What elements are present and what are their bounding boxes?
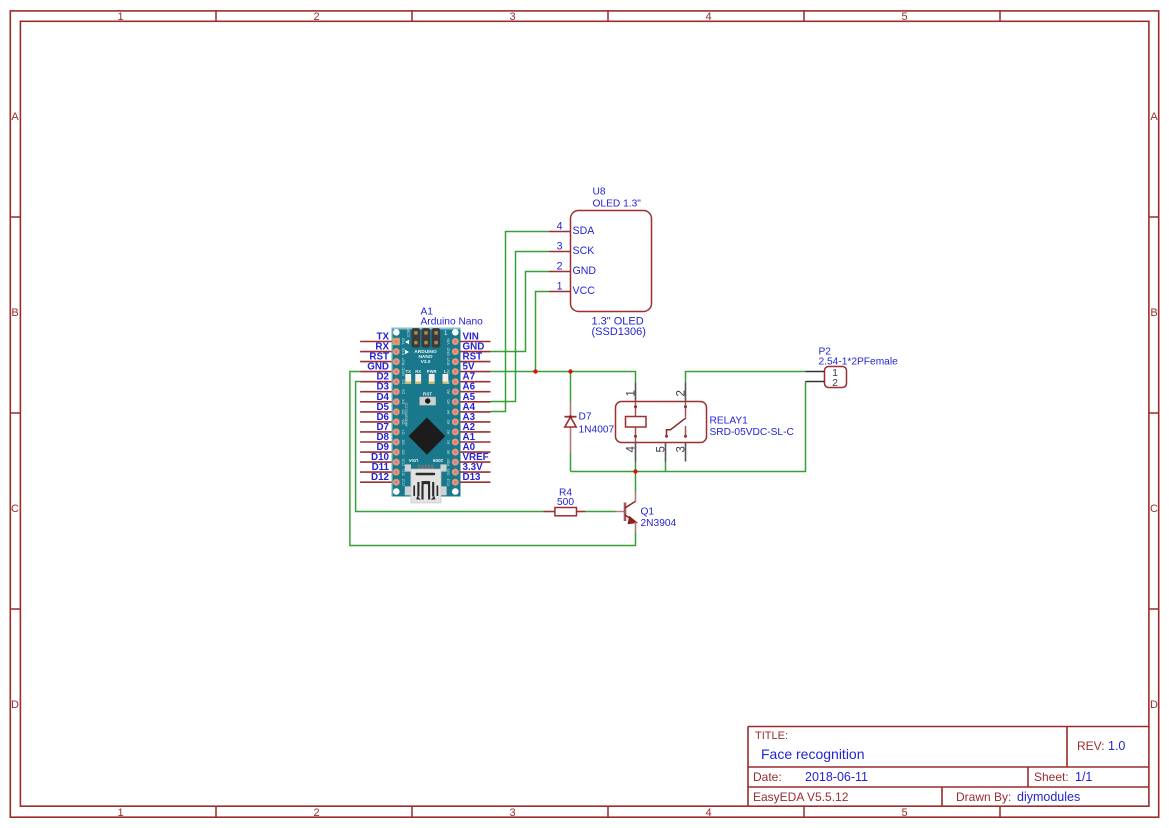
svg-text:SRD-05VDC-SL-C: SRD-05VDC-SL-C — [710, 427, 794, 438]
svg-text:C: C — [11, 503, 19, 515]
svg-text:Sheet:: Sheet: — [1034, 770, 1069, 784]
svg-text:D8: D8 — [402, 440, 406, 445]
CONNECTOR P2 — [806, 347, 899, 390]
svg-text:SCK: SCK — [573, 245, 595, 257]
RELAY1 switch terminal dots — [684, 405, 687, 408]
A1 LEDs — [405, 374, 411, 384]
ARDUINO NANO A1 — [360, 307, 490, 484]
svg-text:(SSD1306): (SSD1306) — [592, 326, 646, 338]
svg-text:RX0: RX0 — [402, 348, 406, 355]
svg-text:D: D — [11, 699, 19, 711]
svg-text:1: 1 — [444, 330, 448, 337]
svg-text:1: 1 — [557, 281, 563, 293]
RELAY1 coil box — [626, 417, 647, 428]
svg-text:Arduino Nano: Arduino Nano — [421, 317, 484, 328]
svg-text:5: 5 — [901, 11, 907, 23]
svg-text:4: 4 — [557, 221, 563, 233]
svg-text:EasyEDA V5.5.12: EasyEDA V5.5.12 — [753, 790, 849, 804]
svg-text:4: 4 — [625, 446, 637, 453]
RELAY1 pin 5 stub — [665, 443, 667, 462]
svg-text:1N4007: 1N4007 — [579, 425, 615, 436]
A1 USB connector — [418, 465, 420, 470]
D7 cathode bar — [565, 416, 577, 418]
P2 pin 1 stub — [806, 371, 825, 373]
U8 pin numbers — [557, 221, 563, 293]
wire: relay pin5 to bottom net — [665, 462, 667, 472]
Q1 emitter arrow — [628, 516, 639, 525]
RELAY1 switch blade — [667, 418, 687, 437]
junction dot at 5V/VCC — [533, 369, 537, 373]
svg-text:1: 1 — [625, 390, 637, 396]
svg-text:3: 3 — [509, 11, 515, 23]
P2 body — [825, 367, 847, 388]
svg-text:diymodules: diymodules — [1017, 790, 1080, 804]
svg-text:GND: GND — [447, 347, 451, 356]
TRANSISTOR Q1 — [616, 492, 677, 532]
op-amp U8 body — [571, 211, 652, 312]
svg-text:500: 500 — [557, 497, 574, 508]
A1 corner holes — [393, 329, 400, 336]
A1 right pads — [452, 338, 458, 344]
wire: relay pin4 to bottom net — [635, 462, 637, 472]
svg-text:5: 5 — [901, 807, 907, 819]
svg-text:2.54-1*2PFemale: 2.54-1*2PFemale — [819, 357, 899, 368]
svg-text:RX: RX — [415, 369, 421, 374]
svg-text:2009: 2009 — [432, 458, 443, 463]
frame column labels bottom — [117, 807, 907, 819]
svg-text:D7: D7 — [579, 412, 592, 423]
Q1 emitter stub — [635, 522, 637, 532]
A1 right pin name labels — [463, 332, 489, 484]
svg-text:ARDUINO.CC: ARDUINO.CC — [405, 402, 409, 426]
RELAY1 switch contact lead — [685, 426, 687, 436]
svg-text:Q1: Q1 — [641, 507, 655, 518]
junction dot at 5V/D7 — [568, 369, 572, 373]
Q1 base bar — [624, 503, 627, 522]
svg-text:SDA: SDA — [573, 225, 596, 237]
svg-text:D10: D10 — [402, 459, 406, 466]
wire: D7 cathode down to bottom net — [570, 454, 572, 472]
svg-text:C: C — [1150, 503, 1158, 515]
row tick marks left — [10, 217, 20, 609]
frame row labels right — [1150, 111, 1158, 711]
svg-text:1/1: 1/1 — [1075, 770, 1092, 784]
svg-text:A: A — [11, 111, 19, 123]
RELAY1 — [616, 383, 794, 462]
RESISTOR R4 — [544, 488, 586, 516]
svg-text:2: 2 — [313, 807, 319, 819]
svg-text:TX: TX — [406, 369, 412, 374]
svg-text:4: 4 — [705, 11, 711, 23]
wire: 5V net from Arduino 5V pin to relay pin1 — [491, 372, 636, 383]
wire: Arduino GND left down and to Q1 emitter — [350, 372, 636, 546]
A1 inner vertical pin names — [402, 328, 451, 486]
U8 pin 3 stub — [549, 251, 571, 253]
svg-text:TX3: TX3 — [402, 338, 406, 345]
row tick marks right — [1149, 217, 1159, 609]
svg-text:3V3: 3V3 — [447, 469, 451, 476]
svg-text:Drawn By:: Drawn By: — [956, 790, 1011, 804]
svg-text:2N3904: 2N3904 — [641, 518, 677, 529]
svg-text:REV:: REV: — [1077, 739, 1105, 753]
svg-text:4: 4 — [705, 807, 711, 819]
svg-text:5: 5 — [655, 446, 667, 452]
svg-text:Date:: Date: — [753, 770, 782, 784]
svg-text:2: 2 — [313, 11, 319, 23]
Q1 collector diagonal — [625, 501, 636, 508]
svg-text:D13: D13 — [447, 479, 451, 486]
RELAY1 pin 1 stub — [635, 383, 637, 402]
RELAY1 pin 2 stub — [685, 383, 687, 402]
svg-text:PWR: PWR — [427, 369, 437, 374]
U8 pin 4 stub — [549, 231, 571, 233]
svg-text:A0: A0 — [447, 450, 451, 455]
svg-text:U8: U8 — [593, 187, 606, 198]
P2 pin 2 stub — [806, 381, 825, 383]
Q1 emitter diagonal — [625, 515, 637, 523]
svg-text:2: 2 — [557, 261, 563, 273]
OLED MODULE U8 — [549, 187, 652, 339]
svg-text:REF: REF — [447, 458, 451, 466]
wire: R4 right to Q1 base — [585, 511, 615, 513]
svg-text:NANO: NANO — [418, 354, 432, 360]
A1 left pin name labels — [367, 332, 389, 484]
A1 right pin stubs — [461, 342, 491, 483]
svg-text:GND: GND — [402, 367, 406, 376]
svg-text:A1: A1 — [447, 440, 451, 445]
wire: OLED SDA to A4 — [491, 232, 550, 412]
A1 USB shield tabs — [405, 464, 411, 471]
svg-text:A6: A6 — [447, 389, 451, 394]
A1 silk text — [414, 349, 437, 365]
svg-text:A7: A7 — [447, 379, 451, 384]
Q1 base stub — [616, 511, 626, 513]
junction dot bottom net at relay pin4 — [633, 469, 637, 473]
column tick marks bottom — [216, 806, 1000, 817]
frame column labels top — [117, 11, 907, 23]
svg-text:ICSP: ICSP — [407, 328, 411, 337]
A1 MCU chip — [409, 418, 446, 455]
svg-text:RST: RST — [423, 392, 432, 397]
A1 left pads — [393, 338, 399, 344]
RELAY1 switch common lead — [685, 402, 687, 418]
frame row labels left — [11, 111, 19, 711]
svg-text:5V: 5V — [447, 369, 451, 374]
svg-text:OLED 1.3": OLED 1.3" — [593, 199, 642, 210]
RELAY1 body — [616, 402, 707, 443]
wire: bottom net down to Q1 collector — [635, 472, 637, 493]
wire: OLED SCK to A5 — [491, 252, 550, 402]
svg-text:VIN: VIN — [447, 338, 451, 345]
A1 left pin stubs — [360, 342, 391, 483]
R4 body — [555, 508, 577, 516]
wire: bottom net D7 to relay pin4/pin5 to P2 pin2 — [571, 382, 806, 472]
svg-text:USA: USA — [408, 458, 418, 463]
svg-text:D13: D13 — [463, 472, 482, 483]
wire: Arduino D2 to R4 left — [356, 382, 544, 512]
U8 pin 2 stub — [549, 271, 571, 273]
svg-text:A4: A4 — [447, 410, 451, 415]
RELAY1 coil leads — [635, 402, 637, 443]
svg-text:RST: RST — [447, 357, 451, 365]
svg-text:D7: D7 — [402, 429, 406, 434]
WIRES — [350, 232, 806, 546]
wire: OLED VCC down to 5V net — [536, 292, 550, 372]
column tick marks top — [216, 10, 1000, 21]
DIODE D7 — [565, 402, 615, 454]
svg-text:VCC: VCC — [573, 285, 596, 297]
svg-text:B: B — [11, 307, 18, 319]
svg-text:3: 3 — [676, 446, 688, 452]
svg-text:3: 3 — [557, 241, 563, 253]
D7 junction blob — [569, 415, 572, 418]
svg-text:1: 1 — [117, 807, 123, 819]
svg-text:D9: D9 — [402, 450, 406, 455]
A1 ICSP header — [412, 328, 421, 348]
svg-text:RST: RST — [402, 357, 406, 365]
svg-text:D12: D12 — [371, 472, 390, 483]
RELAY1 coil terminal dots — [634, 405, 637, 408]
Q1 collector stub — [635, 492, 637, 501]
RELAY1 pin 3 stub — [685, 443, 687, 462]
svg-text:1.0: 1.0 — [1108, 739, 1125, 753]
D7 anode stub — [570, 402, 572, 417]
R4 right stub — [577, 511, 586, 513]
svg-text:GND: GND — [573, 265, 597, 277]
svg-text:2018-06-11: 2018-06-11 — [805, 770, 868, 784]
svg-text:3: 3 — [509, 807, 515, 819]
svg-text:D: D — [1150, 699, 1158, 711]
svg-text:2: 2 — [676, 390, 688, 396]
svg-text:TITLE:: TITLE: — [755, 730, 788, 742]
A1 silk triangles — [405, 340, 409, 345]
svg-text:A2: A2 — [447, 430, 451, 435]
svg-text:1: 1 — [117, 11, 123, 23]
D7 triangle — [565, 417, 576, 427]
A1 board PCB — [392, 328, 461, 503]
U8 pin 1 stub — [549, 291, 571, 293]
TITLE BLOCK — [748, 727, 1149, 807]
U8 pin names — [573, 225, 597, 297]
svg-text:A: A — [1150, 111, 1158, 123]
svg-text:B: B — [1150, 307, 1157, 319]
svg-text:D12: D12 — [402, 479, 406, 486]
svg-text:V3.0: V3.0 — [421, 359, 431, 365]
D7 cathode stub — [570, 428, 572, 454]
svg-text:A3: A3 — [447, 420, 451, 425]
wire: 5V branch down to D7 anode — [570, 372, 572, 403]
svg-text:D11: D11 — [402, 469, 406, 476]
svg-text:Face recognition: Face recognition — [761, 746, 865, 762]
svg-text:2: 2 — [832, 377, 838, 389]
wire: OLED GND to Arduino GND right — [491, 272, 550, 352]
A1 TX gold pad — [393, 338, 400, 345]
R4 left stub — [544, 511, 555, 513]
wire: relay pin2 up and right to P2 pin1 — [686, 372, 806, 383]
RELAY1 pin 4 stub — [635, 443, 637, 462]
svg-text:D3: D3 — [402, 389, 406, 394]
svg-text:A5: A5 — [447, 399, 451, 404]
svg-text:D2: D2 — [402, 379, 406, 384]
svg-text:RELAY1: RELAY1 — [710, 416, 749, 427]
